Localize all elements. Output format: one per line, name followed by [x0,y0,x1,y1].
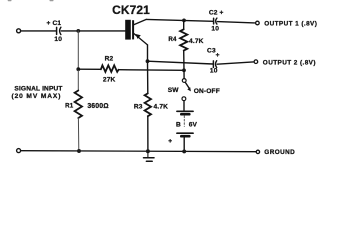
wire [147,61,149,93]
wire emitter vertical [147,45,149,61]
svg-text:4.7K: 4.7K [189,38,204,45]
ground rail [21,151,256,152]
node R1 bottom [77,149,81,153]
resistor R1 [65,91,109,119]
ground symbol [144,151,155,161]
svg-text:GROUND: GROUND [264,149,295,156]
node switch junction [182,68,186,72]
capacitor C1 [47,20,63,43]
svg-text:OUTPUT 1 (.8V): OUTPUT 1 (.8V) [264,20,317,27]
capacitor C3 [207,48,220,75]
svg-text:+: + [216,52,220,59]
node battery bottom [182,149,186,153]
svg-text:SW: SW [168,87,180,94]
node R4 top [182,19,186,23]
node emitter junction [146,59,150,63]
wire [119,69,184,72]
node R2 junction [76,67,80,71]
output terminal 2 [254,60,258,64]
wire [217,22,254,23]
capacitor C2 [209,10,224,33]
input terminal [17,29,21,33]
wire [77,31,79,69]
wire collector rail [146,19,213,21]
wire emitter rail [148,61,213,64]
svg-text:OUTPUT 2 (.8V): OUTPUT 2 (.8V) [263,59,316,66]
wire [61,30,125,32]
battery B 6V [168,101,197,152]
svg-text:R1: R1 [65,102,74,109]
svg-text:SIGNAL INPUT: SIGNAL INPUT [14,86,62,93]
svg-text:4.7K: 4.7K [154,103,169,110]
svg-text:3600Ω: 3600Ω [87,103,108,110]
resistor R4 [168,20,203,50]
input ground terminal [17,149,21,153]
node R3 bottom [146,149,150,153]
wire [21,30,56,32]
wire [77,118,79,151]
svg-text:+ C1: + C1 [47,20,62,27]
wire R2 rail [78,68,101,70]
wire [77,69,79,90]
resistor R3 [134,93,168,116]
svg-text:27K: 27K [103,77,116,84]
svg-text:+: + [168,138,172,145]
svg-text:10: 10 [210,67,218,74]
node base junction [76,29,80,33]
svg-text:R2: R2 [105,55,114,62]
transistor Q1 CK721 [125,19,147,45]
svg-text:(20 MV MAX): (20 MV MAX) [11,93,61,100]
svg-text:C2 +: C2 + [209,10,224,17]
svg-text:10: 10 [54,36,62,43]
svg-text:R4: R4 [168,36,177,43]
wire [147,116,149,151]
resistor R2 [101,55,119,83]
svg-text:R3: R3 [134,103,143,110]
ground terminal [256,150,259,153]
wire [217,62,253,64]
svg-text:B: B [176,122,181,129]
output terminal 1 [256,21,260,25]
wire [183,51,185,71]
svg-text:ON-OFF: ON-OFF [194,88,220,95]
svg-text:10: 10 [211,26,219,33]
svg-text:6V: 6V [189,122,198,129]
svg-text:CK721: CK721 [112,3,150,17]
scan artifacts top edge [8,0,10,2]
switch SW [168,70,220,100]
